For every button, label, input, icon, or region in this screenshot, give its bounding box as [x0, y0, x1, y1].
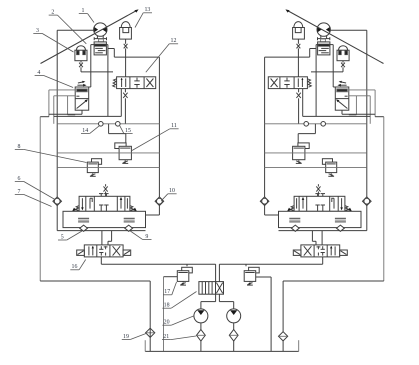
wire: [106, 44, 108, 46]
main valve lower block: [63, 211, 146, 227]
diamond port 10: [155, 197, 164, 206]
tank: [145, 350, 299, 352]
wire: [200, 341, 202, 351]
diamond port 6: [53, 197, 62, 206]
wire: [200, 302, 202, 310]
svg-text:20: 20: [164, 320, 170, 326]
shut-off X under valve 12: [123, 93, 127, 98]
pilot arrows above valve 4: [77, 84, 85, 86]
wire drain left: [163, 277, 165, 352]
wire row: [57, 166, 159, 168]
wire: [158, 57, 160, 197]
filter 19 left: [146, 328, 155, 337]
accumulator 2: [76, 46, 85, 51]
svg-text:17: 17: [164, 289, 170, 295]
wire: [233, 323, 235, 330]
svg-text:12: 12: [171, 38, 177, 44]
wire: [219, 301, 233, 303]
shut-off X under accumulator 2: [79, 63, 83, 68]
svg-text:13: 13: [144, 7, 150, 13]
wire return left: [40, 280, 150, 282]
wire into valve 18: [215, 264, 217, 301]
wire: [186, 264, 188, 266]
svg-text:10: 10: [169, 188, 175, 194]
svg-text:4: 4: [37, 70, 40, 76]
wire: [100, 257, 102, 264]
wire: [218, 294, 220, 301]
motor M1: [94, 23, 107, 36]
directional valve 12: [117, 77, 156, 89]
svg-text:16: 16: [72, 264, 78, 270]
wire: [80, 67, 82, 72]
svg-text:8: 8: [18, 144, 21, 150]
wire: [164, 276, 178, 278]
wire: [105, 192, 107, 197]
shut-off X above main valve: [104, 186, 108, 191]
relief valve 8: [92, 159, 102, 165]
wire: [91, 44, 94, 46]
wire outer drop: [39, 117, 41, 281]
check port 15: [116, 122, 121, 127]
spring of valve 12: [113, 79, 117, 87]
relief valve 17 left: [182, 267, 193, 273]
filter right: [229, 330, 238, 342]
wire: [57, 29, 94, 31]
wire: [56, 206, 58, 231]
wire: [108, 124, 110, 134]
pressure valve 4: [75, 87, 89, 110]
relief valve 11: [115, 143, 126, 149]
wire: [218, 264, 220, 281]
wire: [49, 89, 75, 91]
wire: [245, 264, 247, 266]
main control valve upper section: [79, 196, 130, 211]
wire top-right run: [219, 263, 322, 265]
wire: [81, 71, 113, 73]
wire drain right: [270, 277, 272, 351]
wire row: [54, 115, 122, 117]
directional valve 16: [84, 245, 123, 257]
unloading valve 18: [199, 282, 224, 295]
svg-text:1: 1: [82, 8, 85, 14]
wire: [282, 281, 284, 351]
wire: [200, 323, 202, 330]
pump right: [227, 309, 241, 323]
wire: [124, 89, 126, 93]
wire: [111, 231, 113, 242]
svg-text:11: 11: [171, 123, 177, 129]
wire: [56, 30, 58, 197]
svg-text:2: 2: [51, 10, 54, 16]
wire: [101, 231, 103, 245]
variable displacement arrow: [41, 11, 137, 64]
wire: [233, 341, 235, 351]
svg-text:7: 7: [18, 189, 21, 195]
bottom centre section: [40, 264, 384, 351]
svg-text:9: 9: [145, 234, 148, 240]
wire: [201, 301, 216, 303]
wire return right: [283, 280, 384, 282]
wire: [124, 98, 126, 124]
wire: [125, 48, 127, 76]
check diamond 9: [125, 225, 133, 231]
valve 16 end blocks: [77, 250, 85, 255]
wire: [81, 110, 83, 114]
wire row: [57, 152, 159, 154]
wire row: [57, 123, 159, 125]
wire top-left run: [101, 263, 215, 265]
wire lower: [57, 230, 145, 232]
check diamond 5: [80, 225, 88, 231]
wire: [158, 206, 160, 216]
check port 14: [99, 122, 104, 127]
wire: [114, 56, 159, 58]
svg-text:19: 19: [123, 334, 129, 340]
wire: [120, 89, 122, 117]
accumulator 13: [121, 22, 130, 29]
svg-text:15: 15: [125, 128, 131, 134]
spring right: [130, 206, 134, 212]
valve block B: [94, 42, 106, 55]
relief valve 17 right: [249, 267, 260, 273]
svg-text:3: 3: [36, 28, 39, 34]
right half (mirrored): [260, 9, 384, 281]
motor ports: [96, 36, 98, 39]
svg-text:21: 21: [163, 334, 169, 340]
wire: [233, 302, 235, 310]
shut-off X under accumulator 13: [124, 44, 128, 49]
svg-text:14: 14: [82, 128, 88, 134]
pump 20 left: [194, 309, 208, 323]
filter 19 right: [279, 332, 288, 341]
wire: [108, 48, 114, 50]
svg-text:5: 5: [61, 234, 64, 240]
wire: [67, 96, 69, 115]
spring left: [75, 206, 79, 212]
svg-text:18: 18: [164, 303, 170, 309]
filter 21 left: [197, 330, 206, 342]
wire: [256, 276, 271, 278]
svg-text:6: 6: [18, 176, 21, 182]
wire: [54, 95, 75, 97]
